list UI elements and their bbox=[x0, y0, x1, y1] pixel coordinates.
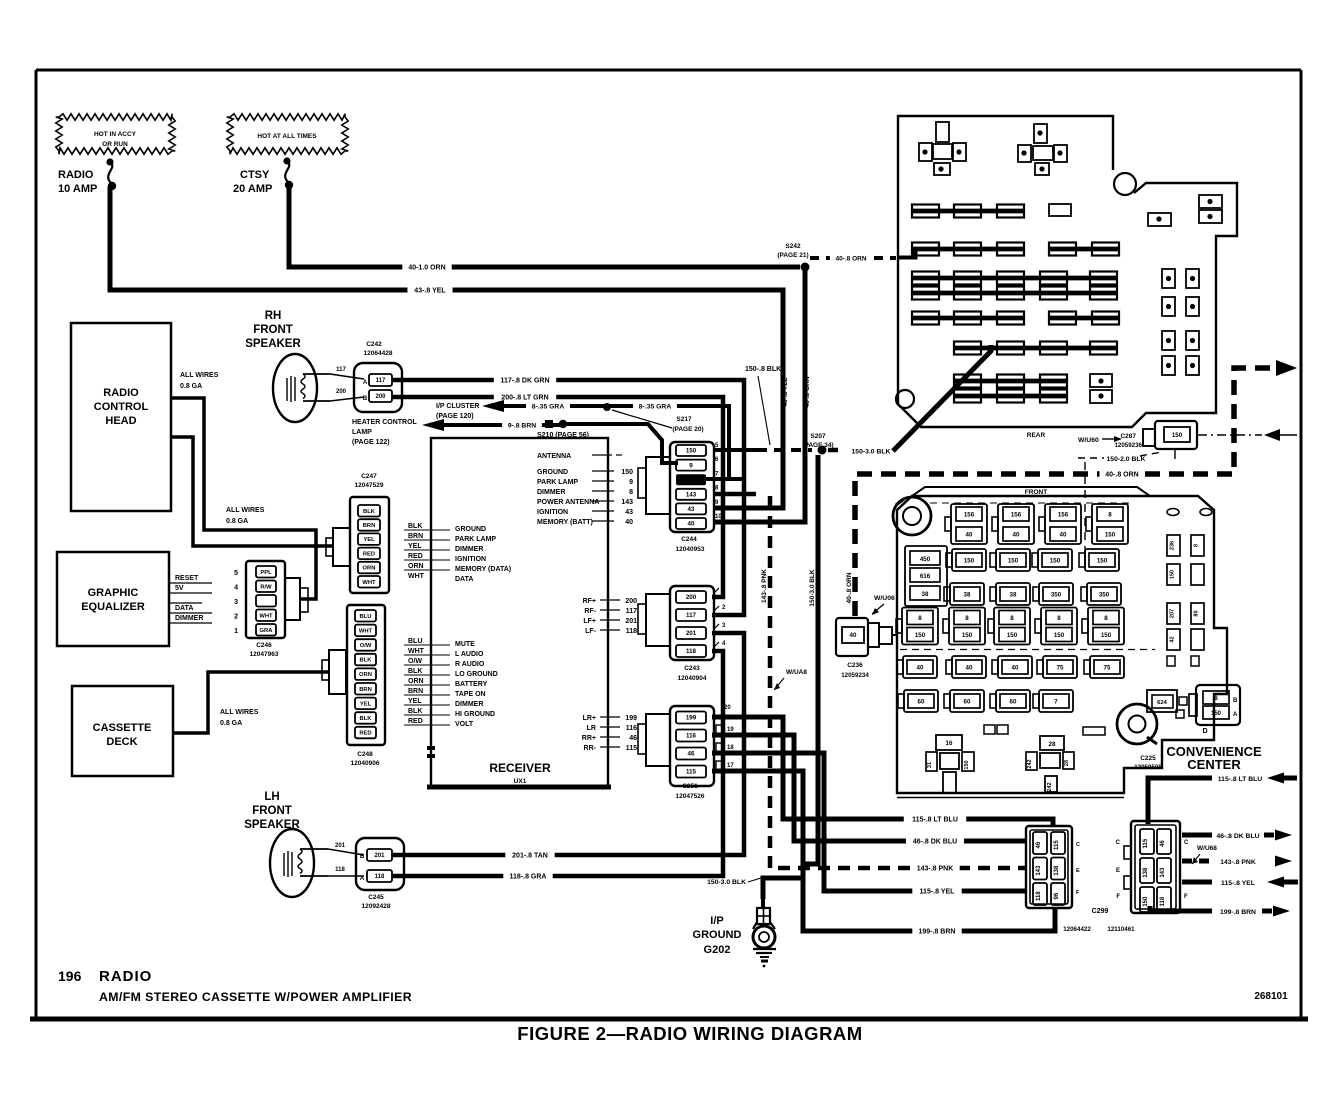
svg-text:WHT: WHT bbox=[259, 613, 273, 619]
svg-text:1: 1 bbox=[234, 628, 238, 635]
note all wires 0.8 ga (cassette deck) bbox=[220, 709, 259, 727]
svg-text:12040904: 12040904 bbox=[678, 675, 707, 682]
svg-text:12064422: 12064422 bbox=[1063, 926, 1091, 933]
svg-text:118: 118 bbox=[1160, 896, 1166, 906]
svg-text:RH: RH bbox=[265, 310, 282, 322]
svg-text:ORN: ORN bbox=[363, 566, 376, 572]
svg-text:43-.8 YEL: 43-.8 YEL bbox=[782, 377, 789, 406]
svg-text:38: 38 bbox=[1010, 591, 1017, 598]
svg-text:WHT: WHT bbox=[408, 573, 425, 580]
svg-text:RED: RED bbox=[359, 731, 371, 737]
svg-text:DIMMER: DIMMER bbox=[537, 489, 565, 496]
wire 118 speaker to C245-A bbox=[328, 867, 364, 876]
RH front speaker label bbox=[245, 310, 301, 350]
svg-text:LR+: LR+ bbox=[583, 715, 596, 722]
svg-text:40: 40 bbox=[1013, 531, 1020, 538]
svg-text:199: 199 bbox=[625, 715, 637, 722]
receiver power/antenna pin labels bbox=[537, 469, 633, 526]
svg-text:117: 117 bbox=[336, 367, 346, 373]
rear panel fuse row 8 bbox=[954, 390, 1112, 404]
svg-text:YEL: YEL bbox=[360, 701, 372, 707]
svg-text:12059505: 12059505 bbox=[1134, 764, 1162, 771]
svg-text:FRONT: FRONT bbox=[1025, 489, 1047, 496]
svg-text:46-.8 DK BLU: 46-.8 DK BLU bbox=[1216, 833, 1259, 840]
svg-text:38: 38 bbox=[922, 591, 929, 598]
svg-text:8-.35 GRA: 8-.35 GRA bbox=[532, 404, 565, 411]
rear panel terminal grid bbox=[1162, 269, 1199, 375]
svg-text:150: 150 bbox=[1211, 711, 1222, 717]
svg-text:40: 40 bbox=[625, 519, 633, 526]
svg-text:268101: 268101 bbox=[1254, 991, 1288, 1002]
svg-text:115-.8 LT BLU: 115-.8 LT BLU bbox=[912, 817, 958, 824]
svg-text:156: 156 bbox=[1058, 511, 1069, 518]
svg-text:156: 156 bbox=[1011, 511, 1022, 518]
svg-text:156: 156 bbox=[964, 511, 975, 518]
front panel mounting circle top-left bbox=[893, 497, 931, 535]
connector C287 bbox=[1114, 421, 1197, 449]
svg-text:115: 115 bbox=[1054, 840, 1060, 850]
convenience center small brackets bbox=[1167, 509, 1212, 667]
svg-text:40-1.0 ORN: 40-1.0 ORN bbox=[408, 265, 445, 272]
svg-text:150: 150 bbox=[964, 760, 970, 769]
svg-text:BLK: BLK bbox=[408, 668, 422, 675]
svg-text:BLK: BLK bbox=[360, 716, 373, 722]
svg-text:RESET: RESET bbox=[175, 575, 199, 582]
receiver cassette wire list bbox=[404, 638, 498, 728]
wire antenna lead dash-dot to arrow (left) bbox=[1198, 429, 1297, 441]
svg-text:PPL: PPL bbox=[260, 570, 272, 576]
graphic equalizer pin 5V bbox=[169, 585, 212, 593]
svg-text:LR: LR bbox=[587, 725, 596, 732]
svg-text:150: 150 bbox=[1105, 531, 1116, 538]
convenience center terminal column bbox=[1167, 535, 1204, 650]
svg-text:LF-: LF- bbox=[585, 628, 597, 635]
svg-text:UX1: UX1 bbox=[514, 778, 527, 785]
svg-text:RADIO: RADIO bbox=[58, 169, 94, 181]
svg-text:8-.35 GRA: 8-.35 GRA bbox=[639, 404, 672, 411]
svg-text:O/W: O/W bbox=[408, 658, 422, 665]
svg-text:W/U60: W/U60 bbox=[1078, 437, 1099, 444]
rear panel fuse row 6 bbox=[954, 342, 1117, 355]
wire 9-.8 BRN park lamp with arrow to heater lamp bbox=[422, 419, 678, 464]
svg-text:C251: C251 bbox=[682, 783, 698, 790]
svg-text:242: 242 bbox=[1027, 759, 1033, 768]
svg-text:5: 5 bbox=[234, 570, 238, 577]
svg-text:HOT AT ALL TIMES: HOT AT ALL TIMES bbox=[257, 133, 317, 140]
wire 150-2.0 BLK dash-dot bbox=[1078, 449, 1175, 556]
svg-text:8: 8 bbox=[1104, 615, 1108, 622]
svg-text:OR RUN: OR RUN bbox=[102, 141, 128, 148]
svg-text:118-.8 GRA: 118-.8 GRA bbox=[510, 874, 547, 881]
svg-text:HEAD: HEAD bbox=[105, 415, 136, 427]
svg-text:POWER ANTENNA: POWER ANTENNA bbox=[537, 499, 599, 506]
svg-text:EQUALIZER: EQUALIZER bbox=[81, 601, 145, 613]
svg-text:200: 200 bbox=[375, 394, 386, 400]
wire 117 speaker to C242-A bbox=[330, 367, 364, 379]
svg-text:I/P CLUSTER: I/P CLUSTER bbox=[436, 403, 479, 410]
svg-text:75: 75 bbox=[1057, 664, 1064, 671]
svg-text:46: 46 bbox=[1160, 840, 1166, 847]
graphic equalizer pin DATA bbox=[169, 605, 212, 613]
wire 150-3.0 BLK from S207 to rear fuse panel bbox=[828, 345, 991, 458]
front fuse panel outline bbox=[897, 487, 1227, 798]
svg-text:RADIO: RADIO bbox=[103, 387, 139, 399]
svg-text:31: 31 bbox=[927, 762, 933, 768]
svg-text:WHT: WHT bbox=[359, 628, 373, 634]
svg-text:9: 9 bbox=[629, 479, 633, 486]
svg-text:C247: C247 bbox=[361, 473, 377, 480]
rear panel fuse row 2 bbox=[912, 243, 1119, 256]
svg-text:450: 450 bbox=[920, 556, 931, 563]
svg-text:9: 9 bbox=[689, 462, 693, 469]
svg-text:A: A bbox=[360, 876, 365, 882]
fuse RADIO 10 AMP bbox=[58, 158, 116, 195]
svg-text:40: 40 bbox=[917, 664, 924, 671]
svg-text:12064428: 12064428 bbox=[364, 350, 393, 357]
front panel relay 16 bbox=[926, 735, 974, 793]
cassette deck box bbox=[72, 686, 173, 776]
svg-text:CENTER: CENTER bbox=[1187, 757, 1241, 772]
svg-text:FRONT: FRONT bbox=[253, 324, 293, 336]
wire 199-.8 BRN from C251 to C299 bbox=[712, 771, 1055, 938]
drawing number 268101 bbox=[1254, 991, 1288, 1002]
svg-text:8: 8 bbox=[1108, 511, 1112, 518]
svg-text:8: 8 bbox=[1194, 544, 1200, 547]
svg-text:200: 200 bbox=[625, 598, 637, 605]
connector C299 mate bbox=[1116, 821, 1189, 913]
svg-text:C: C bbox=[1184, 840, 1189, 846]
front panel misc small parts bbox=[984, 725, 1105, 735]
svg-text:BLK: BLK bbox=[408, 523, 422, 530]
svg-text:116: 116 bbox=[626, 725, 637, 732]
svg-text:199: 199 bbox=[686, 715, 697, 722]
svg-text:C287: C287 bbox=[1120, 433, 1136, 440]
svg-text:115-.8 YEL: 115-.8 YEL bbox=[1221, 880, 1255, 887]
hot-in-accy feed box bbox=[56, 114, 175, 154]
i/p ground G202 label bbox=[693, 915, 742, 956]
rear panel label REAR bbox=[1027, 432, 1046, 439]
splice S242 bbox=[777, 243, 809, 272]
fuse CTSY 20 AMP bbox=[233, 157, 293, 195]
rear panel relay cluster 1 bbox=[919, 122, 966, 175]
svg-text:199-.8 BRN: 199-.8 BRN bbox=[1220, 909, 1256, 916]
receiver front speaker pin labels bbox=[583, 598, 638, 635]
svg-text:150: 150 bbox=[964, 557, 975, 564]
svg-text:RF+: RF+ bbox=[583, 598, 596, 605]
svg-text:115: 115 bbox=[1143, 838, 1149, 848]
RH front speaker symbol bbox=[273, 354, 330, 422]
svg-text:143-.8 PNK: 143-.8 PNK bbox=[761, 569, 768, 603]
svg-text:S207: S207 bbox=[810, 433, 826, 440]
svg-text:HEATER CONTROL: HEATER CONTROL bbox=[352, 419, 418, 426]
svg-text:12040906: 12040906 bbox=[351, 760, 380, 767]
svg-text:18: 18 bbox=[727, 745, 734, 751]
svg-text:(PAGE 20): (PAGE 20) bbox=[672, 426, 703, 433]
svg-text:HOT IN ACCY: HOT IN ACCY bbox=[94, 131, 137, 138]
svg-text:138: 138 bbox=[1054, 865, 1060, 876]
note all wires 0.8 ga (radio control head) bbox=[180, 372, 219, 390]
svg-text:150: 150 bbox=[686, 448, 697, 455]
note all wires 0.8 ga (harness) bbox=[226, 507, 265, 525]
svg-text:118: 118 bbox=[686, 648, 697, 655]
svg-text:75: 75 bbox=[1104, 664, 1111, 671]
svg-text:616: 616 bbox=[920, 573, 931, 580]
front panel fuse row A bbox=[945, 504, 1128, 544]
svg-text:40-.8 ORN: 40-.8 ORN bbox=[846, 572, 853, 603]
svg-text:C: C bbox=[1116, 840, 1121, 846]
svg-text:143-.8 PNK: 143-.8 PNK bbox=[917, 866, 954, 873]
svg-text:ANTENNA: ANTENNA bbox=[537, 453, 571, 460]
svg-text:2: 2 bbox=[234, 614, 238, 621]
connector C246 bbox=[234, 561, 308, 658]
svg-text:115: 115 bbox=[686, 769, 697, 776]
svg-text:LAMP: LAMP bbox=[352, 429, 372, 436]
svg-text:40: 40 bbox=[1060, 531, 1067, 538]
wire radio control head to C247 plug upper bbox=[171, 398, 316, 599]
caption FIGURE 2 bbox=[517, 1023, 862, 1044]
svg-text:40: 40 bbox=[688, 521, 695, 528]
svg-text:20 AMP: 20 AMP bbox=[233, 183, 272, 195]
wire 150-.8 BLK dashed from C244 pin 150 to splice S207 bbox=[714, 366, 812, 450]
svg-text:0.8 GA: 0.8 GA bbox=[226, 518, 248, 525]
svg-text:12059234: 12059234 bbox=[841, 672, 869, 679]
svg-text:96: 96 bbox=[1054, 892, 1060, 899]
svg-text:12092428: 12092428 bbox=[362, 903, 391, 910]
svg-text:17: 17 bbox=[727, 763, 734, 769]
wire 201 speaker to C245-B bbox=[328, 843, 364, 855]
svg-text:BRN: BRN bbox=[408, 533, 423, 540]
svg-text:B: B bbox=[1233, 698, 1238, 704]
svg-text:4: 4 bbox=[234, 585, 238, 592]
LH front speaker label bbox=[244, 791, 300, 831]
splice S207 bbox=[802, 433, 833, 455]
svg-text:46: 46 bbox=[629, 735, 637, 742]
svg-text:350: 350 bbox=[1051, 591, 1062, 598]
graphic equalizer pin 3 bbox=[169, 602, 202, 604]
svg-text:D: D bbox=[1202, 728, 1207, 735]
svg-text:RECEIVER: RECEIVER bbox=[489, 761, 551, 775]
svg-text:143: 143 bbox=[1036, 865, 1042, 876]
svg-text:G202: G202 bbox=[704, 944, 731, 956]
svg-text:MEMORY (DATA): MEMORY (DATA) bbox=[455, 566, 511, 573]
note W/U60 bbox=[1078, 436, 1122, 444]
svg-text:8: 8 bbox=[629, 489, 633, 496]
svg-text:12040953: 12040953 bbox=[676, 546, 705, 553]
connector C299 bbox=[1026, 826, 1135, 933]
svg-text:W/U68: W/U68 bbox=[1197, 845, 1217, 852]
i/p ground G202 symbol bbox=[753, 899, 776, 967]
wire 200-.8 LT GRN from C242 to C243 pin 200 bbox=[392, 391, 723, 598]
svg-text:W/UA8: W/UA8 bbox=[786, 669, 807, 676]
svg-text:R AUDIO: R AUDIO bbox=[455, 661, 485, 668]
svg-text:43: 43 bbox=[625, 509, 633, 516]
wire 200 speaker to C242-B bbox=[330, 389, 364, 401]
graphic equalizer pin DIMMER bbox=[169, 615, 212, 623]
svg-text:3: 3 bbox=[234, 599, 238, 606]
svg-text:A: A bbox=[1233, 712, 1238, 718]
connector C245 bbox=[356, 838, 404, 910]
svg-text:REAR: REAR bbox=[1027, 432, 1046, 439]
svg-text:(PAGE 122): (PAGE 122) bbox=[352, 439, 390, 446]
svg-text:C246: C246 bbox=[256, 642, 272, 649]
svg-text:46: 46 bbox=[688, 751, 695, 758]
svg-text:ALL WIRES: ALL WIRES bbox=[226, 507, 265, 514]
receiver antenna pin bbox=[537, 453, 622, 460]
svg-text:DIMMER: DIMMER bbox=[455, 546, 483, 553]
svg-text:R/W: R/W bbox=[260, 584, 272, 590]
svg-text:C242: C242 bbox=[366, 341, 382, 348]
svg-text:RADIO: RADIO bbox=[99, 968, 152, 985]
wire 43-.8 YEL from radio fuse to C244 pin 43 bbox=[110, 186, 789, 508]
svg-text:W/U06: W/U06 bbox=[874, 595, 895, 602]
svg-text:I/P: I/P bbox=[710, 915, 723, 927]
front panel mounting circle bottom bbox=[1117, 704, 1157, 744]
svg-text:C244: C244 bbox=[681, 536, 697, 543]
svg-text:FIGURE 2—RADIO WIRING DIAGRAM: FIGURE 2—RADIO WIRING DIAGRAM bbox=[517, 1023, 862, 1044]
svg-text:ORN: ORN bbox=[408, 563, 424, 570]
wire 199-.8 BRN to body harness (arrow right) bbox=[1150, 906, 1290, 917]
svg-text:CONTROL: CONTROL bbox=[94, 401, 149, 413]
svg-text:12047526: 12047526 bbox=[676, 793, 705, 800]
rear panel relay cluster 2 bbox=[1018, 124, 1067, 175]
front panel fuse column left bbox=[905, 546, 947, 606]
svg-text:118: 118 bbox=[1036, 891, 1042, 901]
svg-text:BLK: BLK bbox=[363, 509, 376, 515]
wire 40-.8 ORN dashed from S242 to rear fuse panel bbox=[810, 248, 916, 265]
svg-text:MUTE: MUTE bbox=[455, 641, 475, 648]
LH front speaker symbol bbox=[270, 829, 328, 897]
svg-text:115-.8 YEL: 115-.8 YEL bbox=[920, 889, 956, 896]
relay 624 bbox=[1147, 690, 1187, 718]
svg-text:(PAGE 120): (PAGE 120) bbox=[436, 413, 474, 420]
wire 116-.8 LT BLU from C251 to C299 bbox=[712, 717, 1053, 827]
receiver rear speaker pin labels bbox=[582, 715, 637, 752]
svg-text:ORN: ORN bbox=[408, 678, 424, 685]
svg-text:IGNITION: IGNITION bbox=[537, 509, 568, 516]
connector C243 bbox=[638, 586, 726, 682]
svg-text:150-3.0 BLK: 150-3.0 BLK bbox=[707, 879, 746, 886]
svg-text:143-.8 PNK: 143-.8 PNK bbox=[1220, 859, 1256, 866]
svg-text:207: 207 bbox=[1170, 609, 1176, 618]
svg-text:150: 150 bbox=[1007, 632, 1018, 639]
svg-text:S242: S242 bbox=[785, 243, 801, 250]
svg-text:117-.8 DK GRN: 117-.8 DK GRN bbox=[500, 378, 549, 385]
svg-text:150: 150 bbox=[1097, 557, 1108, 564]
front panel fuse row D bbox=[896, 608, 1124, 645]
svg-text:LH: LH bbox=[264, 791, 279, 803]
svg-text:8: 8 bbox=[1057, 615, 1061, 622]
svg-text:150: 150 bbox=[1054, 632, 1065, 639]
svg-text:12047529: 12047529 bbox=[355, 482, 384, 489]
svg-text:7: 7 bbox=[1054, 698, 1058, 705]
svg-text:60: 60 bbox=[918, 698, 925, 705]
svg-text:40: 40 bbox=[1012, 664, 1019, 671]
wire 46-.8 DK BLU to body harness (arrow right) bbox=[1182, 830, 1292, 841]
svg-text:ALL WIRES: ALL WIRES bbox=[180, 372, 219, 379]
svg-text:(PAGE 21): (PAGE 21) bbox=[777, 252, 808, 259]
svg-text:B: B bbox=[363, 396, 368, 402]
receiver control-head wire list bbox=[404, 523, 511, 583]
svg-text:116: 116 bbox=[686, 733, 697, 740]
svg-text:F: F bbox=[1116, 894, 1120, 900]
svg-text:BLK: BLK bbox=[408, 708, 422, 715]
splice S217 bbox=[603, 403, 704, 433]
svg-text:40: 40 bbox=[850, 632, 857, 639]
wire 118-.8 GRA from C245 to C243 pin 118 bbox=[392, 651, 723, 883]
svg-text:PARK LAMP: PARK LAMP bbox=[455, 536, 496, 543]
wire radio control head to C247 plug lower bbox=[171, 437, 332, 546]
svg-text:200: 200 bbox=[686, 594, 697, 601]
svg-text:RR-: RR- bbox=[584, 745, 597, 752]
svg-text:80: 80 bbox=[1194, 610, 1200, 616]
svg-text:RF-: RF- bbox=[584, 608, 596, 615]
svg-text:40: 40 bbox=[966, 531, 973, 538]
svg-text:LF+: LF+ bbox=[583, 618, 596, 625]
svg-text:A: A bbox=[363, 380, 368, 386]
wire 117-.8 DK GRN from C242 to C243 pin 117 bbox=[392, 374, 744, 616]
svg-text:350: 350 bbox=[1099, 591, 1110, 598]
rear fuse panel outline bbox=[896, 116, 1237, 427]
svg-text:IGNITION: IGNITION bbox=[455, 556, 486, 563]
svg-text:150: 150 bbox=[1172, 432, 1183, 439]
svg-text:TAPE ON: TAPE ON bbox=[455, 691, 486, 698]
connector C251 bbox=[638, 705, 734, 800]
svg-text:YEL: YEL bbox=[363, 537, 375, 543]
svg-text:CASSETTE: CASSETTE bbox=[93, 722, 152, 734]
wire 115-.8 YEL from C251 to C299 bbox=[712, 753, 1025, 898]
svg-text:E: E bbox=[1076, 868, 1080, 874]
svg-text:BRN: BRN bbox=[359, 687, 372, 693]
svg-text:199-.8 BRN: 199-.8 BRN bbox=[919, 929, 956, 936]
svg-text:SPEAKER: SPEAKER bbox=[245, 338, 301, 350]
svg-text:42: 42 bbox=[1170, 636, 1176, 642]
rear panel fuse row 1 bbox=[912, 204, 1071, 218]
svg-text:236: 236 bbox=[1170, 541, 1176, 550]
svg-text:8: 8 bbox=[918, 615, 922, 622]
svg-text:201: 201 bbox=[686, 630, 697, 637]
svg-text:138: 138 bbox=[1143, 867, 1149, 878]
svg-text:C243: C243 bbox=[684, 665, 700, 672]
note W/U06 bbox=[872, 595, 895, 615]
svg-text:C236: C236 bbox=[847, 662, 863, 669]
svg-text:BLK: BLK bbox=[360, 658, 373, 664]
rear panel fuse row 3 bbox=[912, 272, 1117, 285]
svg-text:150: 150 bbox=[1170, 570, 1176, 579]
svg-text:F: F bbox=[1184, 894, 1188, 900]
wire 150-3.0 BLK from S207 down to ground G202 bbox=[707, 455, 818, 899]
svg-text:PARK LAMP: PARK LAMP bbox=[537, 479, 578, 486]
svg-text:60: 60 bbox=[964, 698, 971, 705]
front panel fuse row E bbox=[897, 656, 1124, 678]
svg-text:MEMORY (BATT): MEMORY (BATT) bbox=[537, 519, 593, 526]
svg-text:8: 8 bbox=[965, 615, 969, 622]
svg-text:10: 10 bbox=[715, 514, 722, 520]
wire 116-.8 LT BLU to body harness (arrow left) bbox=[1148, 773, 1297, 825]
svg-text:C225: C225 bbox=[1140, 755, 1156, 762]
svg-text:FRONT: FRONT bbox=[252, 805, 292, 817]
connector D bbox=[1189, 685, 1240, 735]
svg-text:C248: C248 bbox=[357, 751, 373, 758]
svg-text:RED: RED bbox=[363, 551, 375, 557]
rear panel terminals right extension bbox=[1148, 195, 1222, 226]
splice S210 note bbox=[537, 432, 589, 439]
svg-text:12110461: 12110461 bbox=[1107, 926, 1135, 933]
svg-text:38: 38 bbox=[964, 591, 971, 598]
front panel fuse row C bbox=[944, 583, 1121, 605]
svg-text:VOLT: VOLT bbox=[455, 721, 474, 728]
front panel fuse row B bbox=[946, 549, 1119, 571]
svg-text:150: 150 bbox=[1101, 632, 1112, 639]
